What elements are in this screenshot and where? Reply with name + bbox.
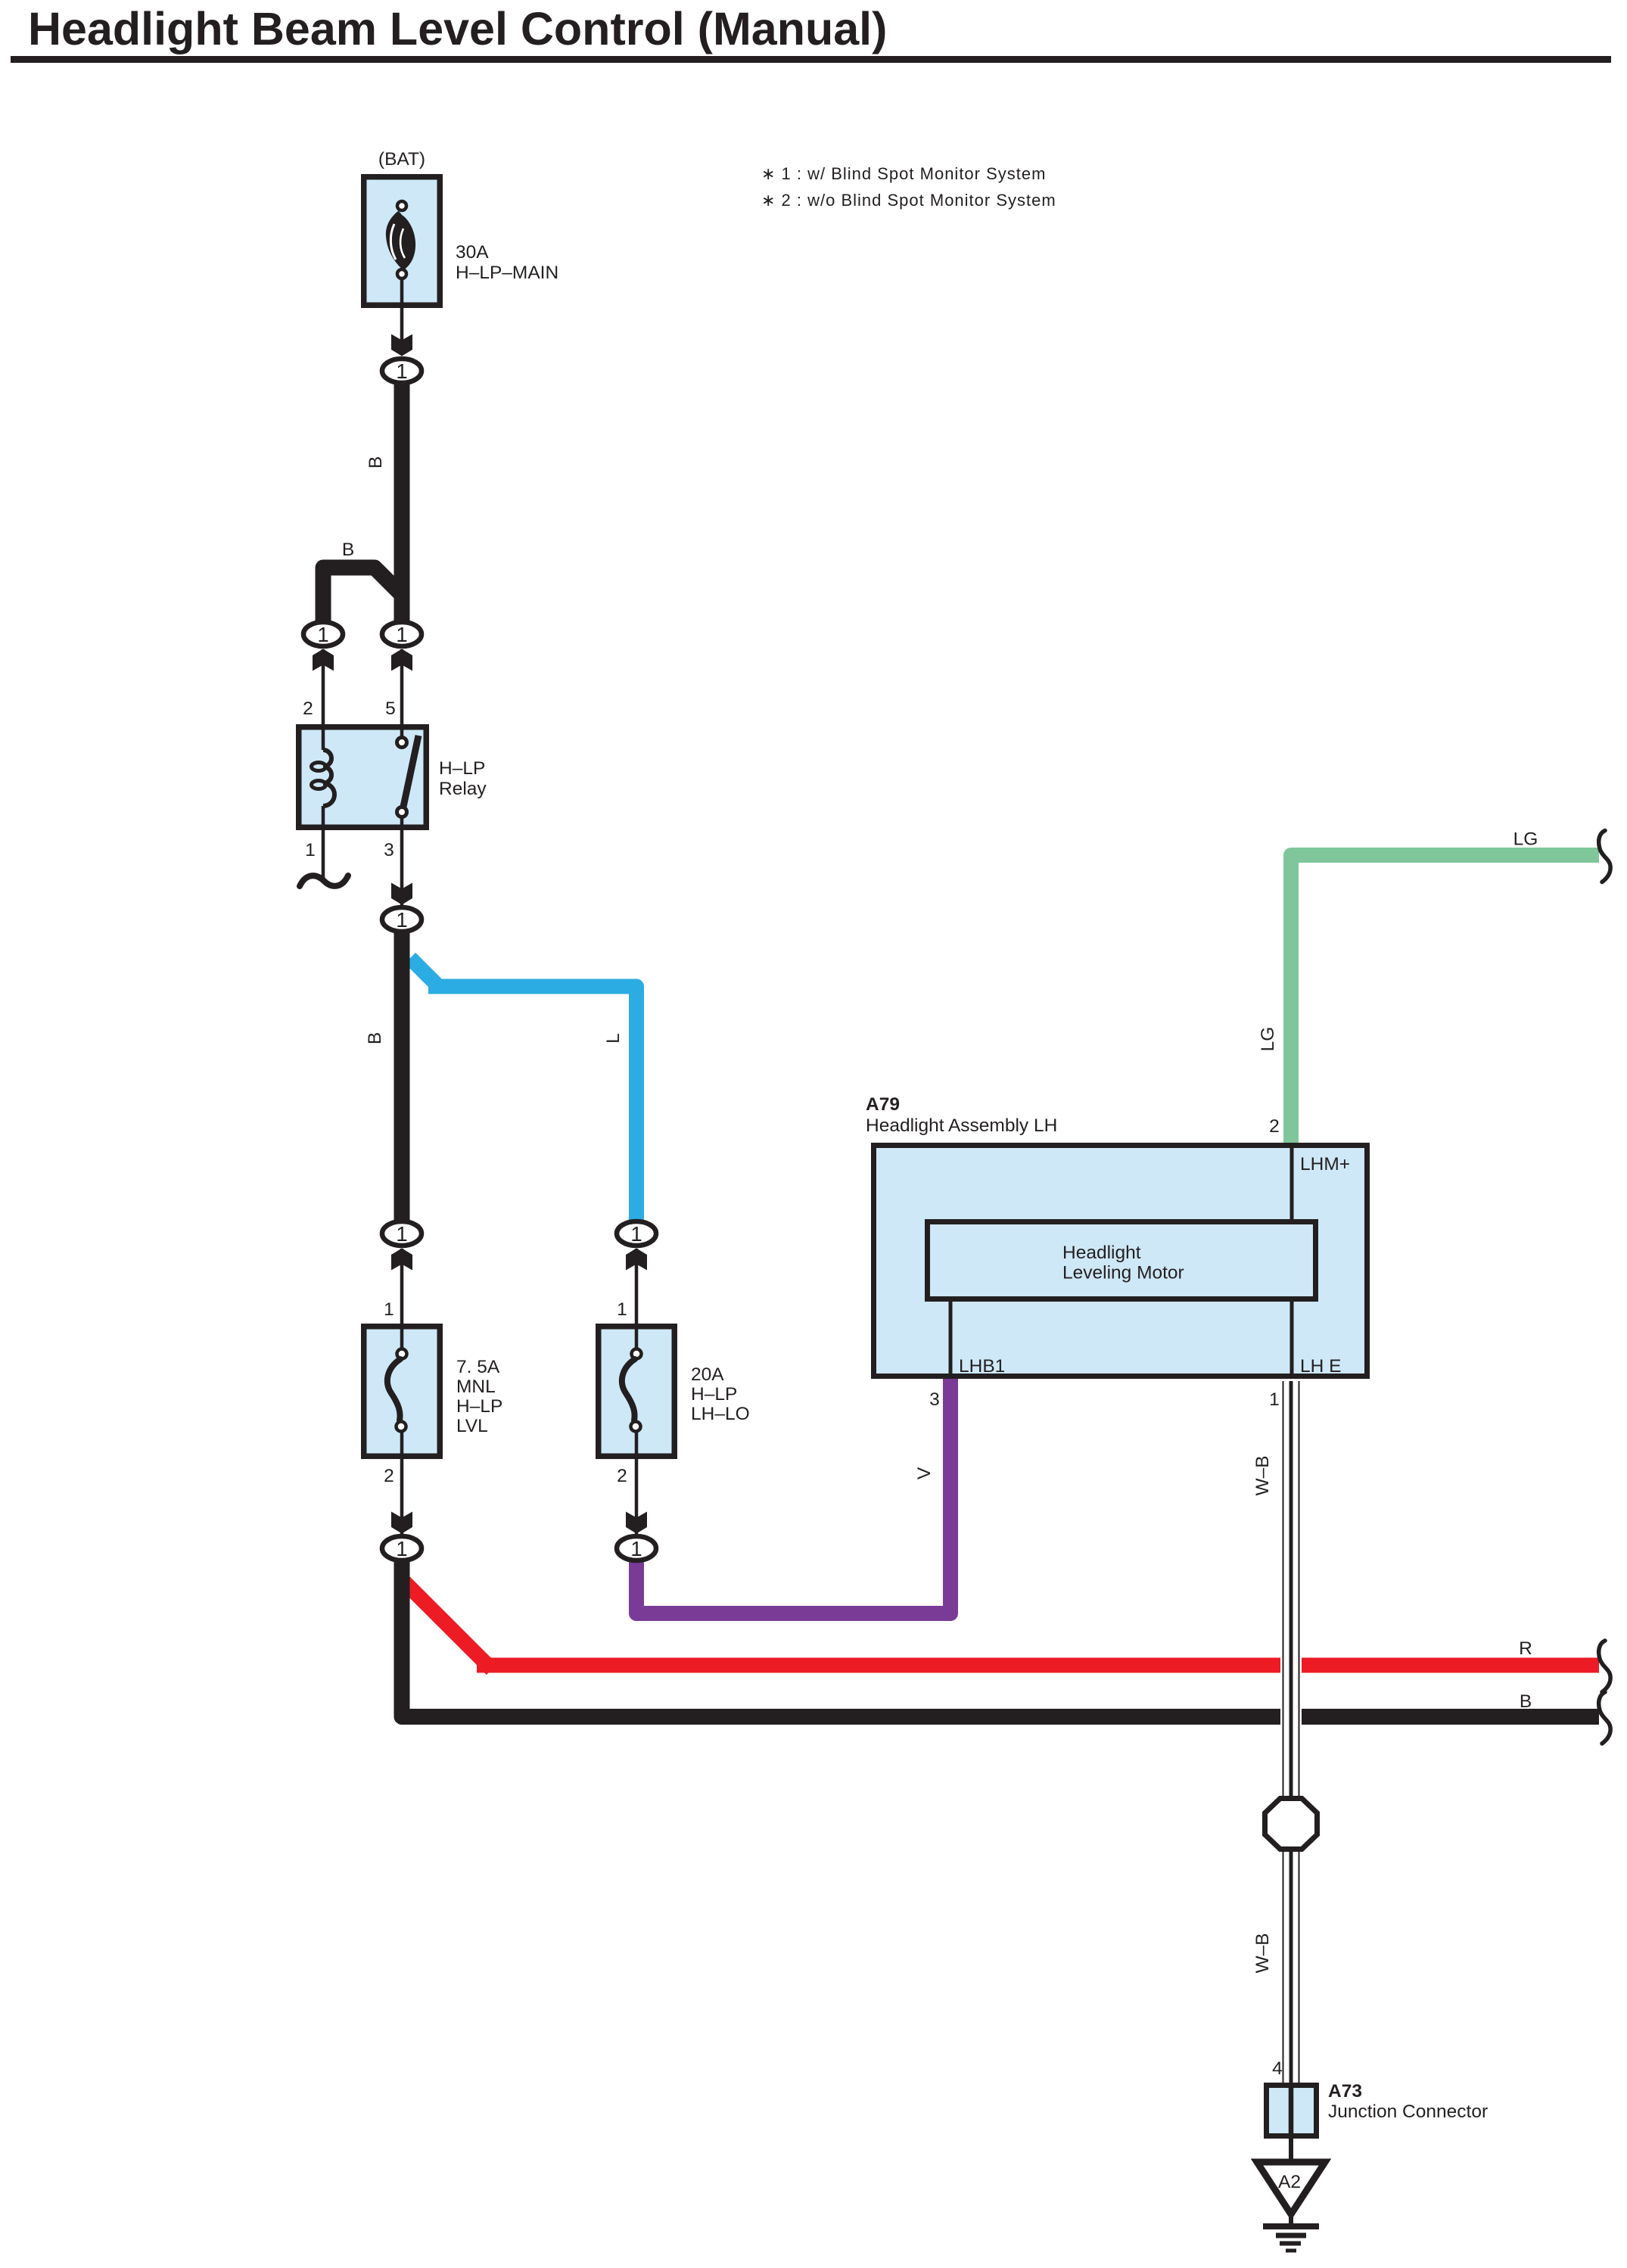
svg-text:LG: LG [1258, 1027, 1278, 1052]
svg-text:Headlight Beam Level Control (: Headlight Beam Level Control (Manual) [28, 3, 887, 54]
svg-text:LH–LO: LH–LO [691, 1404, 750, 1424]
svg-text:LH E: LH E [1300, 1356, 1341, 1377]
svg-text:LVL: LVL [456, 1416, 488, 1436]
svg-text:A73: A73 [1328, 2081, 1362, 2102]
svg-text:H–LP–MAIN: H–LP–MAIN [456, 263, 558, 283]
svg-text:Leveling Motor: Leveling Motor [1062, 1263, 1184, 1283]
svg-text:2: 2 [1269, 1116, 1280, 1137]
svg-text:(BAT): (BAT) [378, 149, 425, 170]
svg-text:5: 5 [385, 698, 396, 719]
svg-text:4: 4 [1272, 2058, 1283, 2079]
svg-text:1: 1 [396, 1537, 407, 1560]
svg-text:1: 1 [630, 1222, 642, 1246]
svg-text:LHB1: LHB1 [959, 1356, 1005, 1377]
svg-text:3: 3 [384, 840, 394, 860]
svg-text:H–LP: H–LP [439, 758, 485, 779]
svg-text:1: 1 [630, 1537, 642, 1560]
svg-text:3: 3 [929, 1389, 940, 1410]
svg-text:H–LP: H–LP [691, 1384, 737, 1405]
svg-text:1: 1 [384, 1299, 394, 1320]
svg-text:1: 1 [396, 359, 407, 383]
svg-text:2: 2 [384, 1466, 394, 1486]
svg-text:1: 1 [617, 1299, 627, 1320]
svg-text:V: V [914, 1467, 935, 1479]
svg-text:A2: A2 [1278, 2172, 1301, 2192]
svg-text:LG: LG [1513, 829, 1538, 850]
svg-text:LHM+: LHM+ [1300, 1154, 1350, 1174]
svg-text:Headlight Assembly LH: Headlight Assembly LH [866, 1115, 1057, 1136]
svg-text:B: B [1520, 1691, 1532, 1712]
svg-text:Junction Connector: Junction Connector [1328, 2102, 1488, 2122]
svg-text:20A: 20A [691, 1364, 724, 1385]
svg-text:1: 1 [396, 1222, 407, 1246]
svg-text:1: 1 [305, 840, 316, 860]
svg-text:MNL: MNL [456, 1377, 496, 1397]
svg-text:L: L [603, 1033, 624, 1044]
svg-text:B: B [365, 1032, 385, 1044]
svg-text:W–B: W–B [1252, 1933, 1273, 1973]
svg-text:∗ 2 : w/o Blind Spot Monitor S: ∗ 2 : w/o Blind Spot Monitor System [761, 191, 1056, 210]
svg-text:30A: 30A [456, 242, 489, 263]
svg-text:7. 5A: 7. 5A [456, 1357, 500, 1377]
svg-text:W–B: W–B [1252, 1455, 1273, 1495]
svg-text:R: R [1519, 1638, 1532, 1659]
svg-text:1: 1 [396, 623, 407, 646]
svg-text:1: 1 [396, 908, 407, 932]
svg-text:B: B [366, 456, 386, 468]
svg-text:1: 1 [317, 623, 328, 646]
svg-text:H–LP: H–LP [456, 1396, 502, 1417]
svg-text:1: 1 [1269, 1389, 1280, 1410]
svg-text:B: B [342, 540, 354, 560]
svg-text:Relay: Relay [439, 779, 487, 799]
svg-text:∗ 1 : w/ Blind Spot Monitor Sy: ∗ 1 : w/ Blind Spot Monitor System [761, 164, 1046, 183]
svg-text:2: 2 [617, 1466, 627, 1486]
svg-text:Headlight: Headlight [1062, 1243, 1141, 1263]
svg-text:2: 2 [303, 698, 313, 719]
svg-text:A79: A79 [866, 1094, 900, 1115]
